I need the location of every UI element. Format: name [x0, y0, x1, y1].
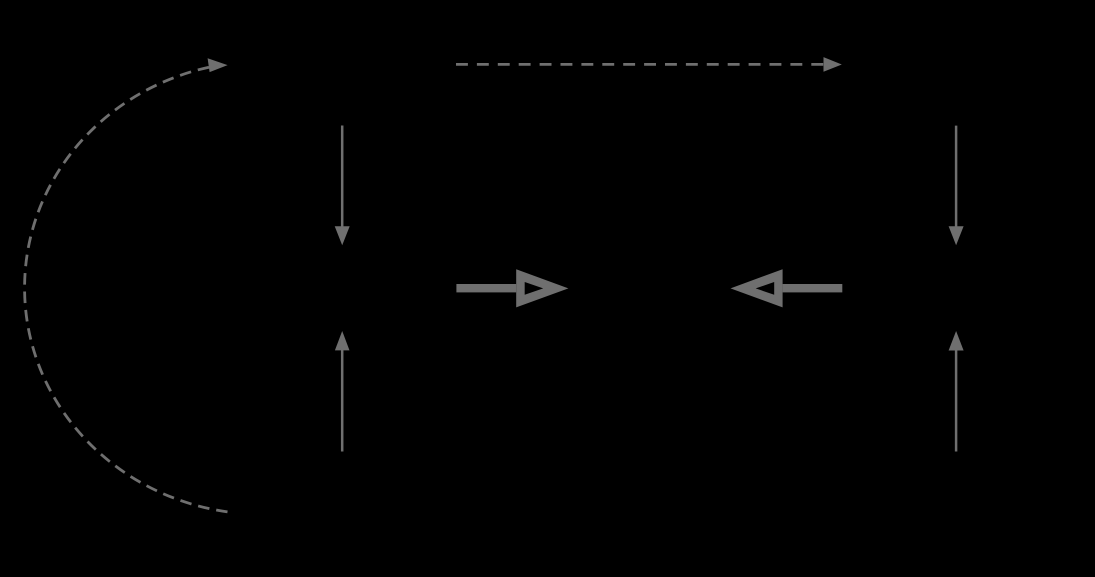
- right thin up arrow shaft: [955, 350, 958, 452]
- thick left-pointing arrow head inner hollow: [756, 282, 775, 295]
- thick right-pointing arrow head inner hollow: [525, 282, 544, 295]
- thick left-pointing arrow hollow head (outer): [731, 269, 783, 307]
- left thin down arrowhead: [335, 226, 350, 245]
- arrowhead of feedback arc (top, pointing right): [208, 58, 228, 72]
- dashed horizontal arrow shaft (top center): [456, 63, 824, 66]
- right thin up arrowhead: [949, 331, 964, 351]
- left thin up arrowhead: [335, 331, 350, 350]
- thick right-pointing arrow hollow head (outer): [516, 269, 568, 307]
- left thin down arrow shaft: [341, 126, 344, 228]
- right thin down arrow shaft: [955, 126, 958, 228]
- left thin up arrow shaft: [341, 350, 344, 452]
- dashed feedback arc (left half-ellipse): [25, 67, 228, 512]
- right thin down arrowhead: [949, 226, 964, 245]
- dashed horizontal arrowhead (pointing right): [824, 57, 842, 72]
- thick left-pointing arrow shaft: [783, 284, 843, 292]
- thick right-pointing arrow shaft: [456, 284, 516, 292]
